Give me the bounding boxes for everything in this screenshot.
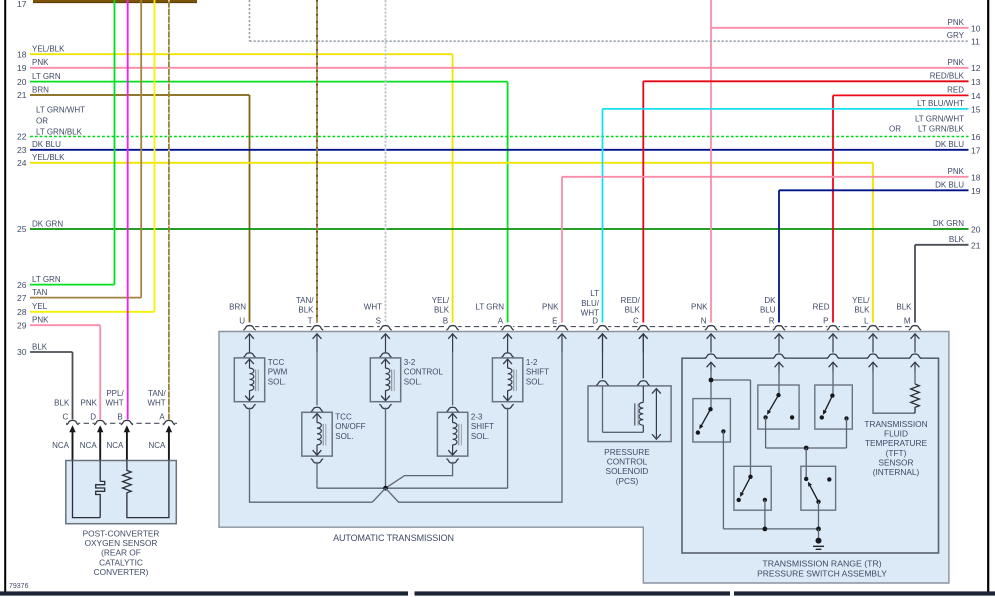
wire TCC ON/OFF solenoid to return bus [316,462,318,488]
svg-text:18: 18 [971,172,981,182]
TFT sensor resistor [911,384,920,413]
svg-text:OXYGEN SENSOR: OXYGEN SENSOR [85,538,158,548]
svg-text:LT: LT [590,289,599,298]
post-converter oxygen sensor box [66,461,177,524]
svg-text:CATALYTIC: CATALYTIC [99,557,143,567]
PCS internal wiring and coil [603,386,644,432]
svg-text:R: R [769,316,775,325]
svg-text:SENSOR: SENSOR [878,457,913,467]
svg-text:YEL: YEL [32,302,48,311]
svg-text:FLUID: FLUID [884,429,908,439]
svg-text:U: U [239,316,245,325]
O2 connector pin B [105,389,133,461]
wire pin L to TFT sensor loop [873,370,915,413]
svg-text:1-2: 1-2 [526,358,538,367]
wire RED/BLK vertical to PCS pin C [642,81,644,325]
transmission case connector dashed line [245,326,918,328]
svg-text:TAN: TAN [32,288,48,297]
TR entry pin N [705,354,717,372]
wire TAN/BLK vertical from top to pin T [316,0,318,325]
label POST-CONVERTER OXYGEN SENSOR [83,528,160,577]
svg-text:23: 23 [17,145,27,155]
svg-text:SHIFT: SHIFT [471,422,494,431]
svg-text:L: L [864,316,869,325]
page left border [4,0,6,596]
TR entry pin R [773,354,785,372]
svg-text:18: 18 [17,49,27,59]
svg-text:79376: 79376 [9,583,29,590]
pin D connector bump and label [581,289,609,352]
svg-text:DK BLU: DK BLU [935,180,964,189]
svg-text:NCA: NCA [149,441,167,450]
wire TAN/WHT vertical from top to O2 pin A [168,0,170,420]
junction bus between switches 2,3 and 5 [766,446,847,479]
pin N connector bump and label [691,303,717,353]
svg-text:PNK: PNK [948,58,965,67]
switch 4 (lower left) [734,466,771,510]
svg-text:28: 28 [17,307,27,317]
svg-text:TRANSMISSION RANGE (TR): TRANSMISSION RANGE (TR) [762,559,881,569]
svg-text:BLK: BLK [298,306,314,315]
svg-text:2-3: 2-3 [471,412,483,421]
wire pin U solenoid to return bus [250,408,373,503]
svg-text:B: B [443,316,448,325]
label PRESSURE CONTROL SOLENOID (PCS) [604,447,650,486]
svg-text:SOL.: SOL. [335,432,353,441]
svg-text:TCC: TCC [335,412,352,421]
wire pin R to switch 2 [778,370,780,395]
switch 4 output wire to ground bus [764,500,766,529]
svg-text:WHT: WHT [105,399,123,408]
svg-text:CONTROL: CONTROL [607,457,648,467]
svg-text:LT GRN: LT GRN [32,72,61,81]
wire 1-2 solenoid to return bus [507,408,509,489]
svg-text:A: A [498,316,504,325]
wire 26 LT GRN vertical from top [114,0,116,285]
svg-text:BLK: BLK [854,306,870,315]
ground symbol [813,529,824,549]
svg-text:POST-CONVERTER: POST-CONVERTER [83,528,160,538]
svg-text:20: 20 [17,77,27,87]
pin R connector bump and label [760,296,785,353]
wire LT BLU/WHT vertical to PCS pin D [602,109,604,325]
svg-text:DK GRN: DK GRN [933,219,964,228]
svg-text:WHT: WHT [147,399,165,408]
svg-text:12: 12 [971,63,981,73]
svg-text:PNK: PNK [32,58,49,67]
wire 29 PNK vertical to O2 pin D [99,325,101,420]
svg-text:26: 26 [17,280,27,290]
wire 30 BLK vertical to O2 pin C [72,352,74,420]
svg-text:RED/BLK: RED/BLK [930,71,965,80]
svg-text:(PCS): (PCS) [616,476,639,486]
wire 17 BRN thick (cut at top) [33,0,197,3]
ground bus horizontal [723,527,820,532]
switch 3 (pin P) [815,385,853,429]
svg-text:YEL/: YEL/ [852,296,870,305]
wire 20 LT GRN vertical to pin A [507,82,509,326]
svg-text:LT GRN: LT GRN [32,275,61,284]
svg-text:CONTROL: CONTROL [404,368,444,377]
svg-text:21: 21 [17,90,27,100]
wire 28 YEL vertical from top [154,0,156,312]
svg-text:TAN/: TAN/ [296,296,314,305]
return bus X to right leg [386,353,563,503]
svg-text:BLK: BLK [949,235,965,244]
pin L connector bump and label [852,296,879,353]
wire pin P to switch 3 [832,370,834,396]
svg-text:RED/: RED/ [621,296,641,305]
svg-text:LT GRN: LT GRN [475,303,504,312]
svg-text:C: C [63,413,69,422]
svg-text:PNK: PNK [948,167,965,176]
svg-text:LT BLU/WHT: LT BLU/WHT [917,99,964,108]
svg-text:BLK: BLK [54,399,70,408]
wire GRY vertical from top [249,0,251,41]
svg-text:D: D [592,316,598,325]
switch 1 (pin N) [693,399,731,442]
pressure control solenoid (PCS) box [588,386,671,442]
svg-text:3-2: 3-2 [404,358,416,367]
wire pin N to switch 1 and branch [709,370,751,477]
wire 3-2 solenoid to return bus [385,408,387,489]
svg-text:(REAR OF: (REAR OF [101,548,141,558]
svg-text:PNK: PNK [948,18,965,27]
next-figure top bar segment 1 [0,591,408,595]
wire DK BLU vertical to pin R [778,190,780,325]
svg-text:YEL/BLK: YEL/BLK [32,45,65,54]
wire PPL/WHT vertical from top to O2 pin B [127,0,129,420]
switch 2 output wire to junction bus [765,417,767,448]
svg-text:22: 22 [17,132,27,142]
automatic transmission body outline [219,332,949,584]
svg-text:BLU/: BLU/ [581,299,600,308]
wire BLK vertical to pin M [914,245,916,325]
pin P connector bump and label [813,303,840,353]
svg-text:C: C [633,316,639,325]
PCS actuator double arrow [652,389,661,440]
svg-text:(INTERNAL): (INTERNAL) [873,467,920,477]
wire pin B to 2-3 shift solenoid [452,353,454,406]
svg-text:N: N [701,316,707,325]
pin T connector bump and label [296,296,323,353]
svg-text:24: 24 [17,158,27,168]
svg-text:DK BLU: DK BLU [935,140,964,149]
O2 connector pin A [147,389,175,461]
svg-text:T: T [308,316,313,325]
solenoid TCC PWM SOL. [234,353,287,409]
svg-text:OR: OR [36,117,48,126]
svg-text:NCA: NCA [107,441,125,450]
svg-text:TEMPERATURE: TEMPERATURE [865,438,928,448]
svg-text:19: 19 [17,63,27,73]
svg-text:17: 17 [17,0,27,9]
svg-text:DK: DK [764,296,776,305]
wire pin M to TFT resistor [914,370,916,384]
svg-text:YEL/: YEL/ [432,296,450,305]
O2 heater resistor (pin B to A) [123,461,169,518]
page right border [987,0,989,596]
svg-text:RED: RED [813,303,830,312]
switch 5 (lower right) [801,466,836,510]
label TRANSMISSION FLUID TEMPERATURE (TFT) SENSOR (INTERNAL) [864,419,927,477]
svg-text:PRESSURE SWITCH ASSEMBLY: PRESSURE SWITCH ASSEMBLY [757,569,887,579]
svg-text:25: 25 [17,224,27,234]
svg-text:RED: RED [947,85,964,94]
switch 3 output wire to junction bus [846,419,848,449]
svg-text:14: 14 [971,91,981,101]
wire PNK vertical to pin E [561,177,563,325]
svg-text:YEL/BLK: YEL/BLK [32,153,65,162]
O2 sensing element (pin D to C) [73,461,105,518]
switch 2 (pin R) [758,385,799,429]
svg-text:PNK: PNK [81,399,98,408]
O2 connector pin D [81,399,107,461]
svg-text:GRY: GRY [947,31,965,40]
switch 1 output wire to ground bus [722,431,724,529]
svg-text:29: 29 [17,320,27,330]
svg-text:BLK: BLK [32,342,48,351]
svg-text:PRESSURE: PRESSURE [604,447,650,457]
svg-text:TRANSMISSION: TRANSMISSION [864,419,927,429]
svg-text:13: 13 [971,77,981,87]
svg-text:A: A [159,413,165,422]
wire PNK vertical from top to pin N [710,0,712,325]
svg-text:30: 30 [17,347,27,357]
svg-text:21: 21 [971,240,981,250]
svg-text:BLK: BLK [434,306,450,315]
TR entry pin M [909,354,921,372]
pin U connector bump and label [229,303,256,353]
svg-text:LT GRN/BLK: LT GRN/BLK [918,124,965,133]
wire 18 YEL/BLK vertical to pin B [452,54,454,325]
pin B connector bump and label [432,296,459,353]
svg-text:16: 16 [971,132,981,142]
svg-text:DK GRN: DK GRN [32,219,63,228]
PCS pin D lead-in wire [596,334,608,385]
svg-text:SOL.: SOL. [526,378,544,387]
svg-text:P: P [823,316,828,325]
pin E connector bump and label [542,303,568,353]
pin A connector bump and label [475,303,513,353]
solenoid TCC ON/OFF SOL. [302,407,366,463]
svg-text:NCA: NCA [80,441,98,450]
svg-text:10: 10 [971,23,981,33]
pin S connector bump and label [364,303,392,353]
solenoid return bus horizontal [317,487,508,489]
svg-text:B: B [117,413,122,422]
svg-text:AUTOMATIC TRANSMISSION: AUTOMATIC TRANSMISSION [333,533,454,543]
transmission range (TR) pressure switch assembly box [682,358,939,553]
svg-text:SOL.: SOL. [268,378,286,387]
O2 connector pin C [54,399,79,461]
svg-text:D: D [90,413,96,422]
solenoid 1-2 SHIFT SOL. [492,353,549,409]
svg-text:PWM: PWM [268,368,288,377]
svg-text:BRN: BRN [229,303,246,312]
next-figure top bar segment 2 [415,591,731,595]
switch 5 wire to ground [818,502,820,529]
svg-text:SOL.: SOL. [404,378,422,387]
svg-text:SHIFT: SHIFT [526,368,549,377]
wire 21 BRN vertical to pin U [249,95,251,325]
wire 2-3 solenoid jog to return junction [386,462,453,488]
svg-text:LT GRN/WHT: LT GRN/WHT [915,114,964,123]
svg-text:WHT: WHT [364,303,382,312]
svg-text:E: E [552,316,557,325]
svg-text:PNK: PNK [542,303,559,312]
svg-text:PPL/: PPL/ [106,389,124,398]
wire RED vertical to pin P [832,95,834,325]
solenoid 2-3 SHIFT SOL. [437,407,494,463]
svg-text:20: 20 [971,225,981,235]
svg-text:BLK: BLK [896,303,912,312]
svg-text:BLK: BLK [625,306,641,315]
svg-text:DK BLU: DK BLU [32,140,61,149]
svg-text:SOL.: SOL. [471,432,489,441]
wire WHT vertical from top to pin S [385,0,387,325]
pin C connector bump and label [621,296,650,353]
svg-text:ON/OFF: ON/OFF [335,422,365,431]
PCS pin C lead-in wire [637,334,649,385]
svg-text:19: 19 [971,186,981,196]
svg-text:15: 15 [971,104,981,114]
svg-text:SOLENOID: SOLENOID [606,466,649,476]
svg-text:17: 17 [971,145,981,155]
next-figure top bar segment 3 [734,591,995,595]
svg-text:PNK: PNK [691,303,708,312]
O2 sensor connector dashed line [66,422,178,424]
svg-text:CONVERTER): CONVERTER) [94,567,149,577]
return bus X to left leg [372,488,385,502]
svg-text:11: 11 [971,37,980,47]
svg-text:27: 27 [17,293,27,303]
wire 27 TAN vertical from top [140,0,142,298]
TR entry pin P [827,354,839,372]
NCA labels [52,441,166,450]
pin M connector bump and label [896,303,921,353]
wire 24 YEL/BLK vertical to pin L [872,163,874,325]
solenoid 3-2 CONTROL SOL. [370,353,443,409]
svg-text:S: S [376,316,381,325]
svg-text:LT GRN/WHT: LT GRN/WHT [36,106,85,115]
return junction node [383,486,388,491]
TR entry pin L [867,354,879,372]
svg-text:TAN/: TAN/ [148,389,166,398]
svg-text:BRN: BRN [32,85,49,94]
wire pin T to TCC ON/OFF solenoid [316,353,318,406]
svg-text:PNK: PNK [32,316,49,325]
svg-text:OR: OR [889,124,901,133]
svg-text:NCA: NCA [52,441,70,450]
svg-text:BLU: BLU [760,306,776,315]
svg-text:(TFT): (TFT) [886,448,907,458]
svg-text:TCC: TCC [268,358,285,367]
svg-text:LT GRN/BLK: LT GRN/BLK [36,128,83,137]
svg-text:M: M [904,316,911,325]
